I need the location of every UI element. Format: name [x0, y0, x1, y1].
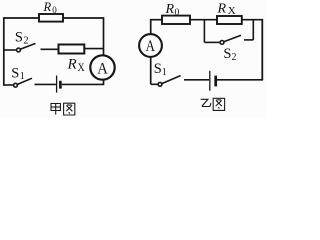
switch S1 (甲)	[4, 78, 32, 87]
wire: right vertical lower (甲)	[103, 80, 105, 85]
ammeter A (乙)	[139, 34, 162, 57]
wire: middle branch right segment (甲)	[84, 48, 103, 50]
caption 乙图	[201, 98, 225, 110]
label S2 (乙)	[223, 46, 236, 63]
wire: left vertical lower (乙)	[150, 57, 152, 84]
battery cell (乙)	[210, 71, 216, 91]
label R0 (甲)	[43, 0, 58, 15]
svg-text:R: R	[217, 2, 227, 17]
svg-text:A: A	[146, 38, 156, 55]
resistor R0 (乙)	[162, 16, 190, 24]
label S1 (甲)	[11, 65, 24, 82]
svg-text:S: S	[11, 65, 19, 81]
wire: left vertical (甲)	[3, 17, 5, 86]
svg-text:1: 1	[162, 67, 167, 78]
wire: bottom wire right segment (甲)	[62, 83, 104, 85]
svg-text:0: 0	[52, 5, 57, 15]
svg-text:S: S	[223, 46, 231, 62]
wire: bypass right segment (乙)	[244, 20, 253, 40]
svg-text:S: S	[154, 61, 162, 77]
resistor R0 (甲)	[39, 14, 63, 22]
svg-text:2: 2	[23, 35, 28, 46]
svg-text:A: A	[97, 60, 108, 77]
label S2 (甲)	[15, 29, 29, 46]
label RX (甲)	[67, 56, 86, 74]
resistor RX (甲)	[59, 45, 85, 54]
battery cell (甲)	[57, 76, 61, 93]
svg-text:0: 0	[175, 8, 180, 18]
wire: middle branch left segment (甲)	[41, 48, 59, 50]
svg-text:X: X	[78, 62, 86, 74]
wire: bottom wire middle segment (乙)	[184, 79, 209, 81]
label RX (乙)	[217, 2, 236, 17]
wire: top wire left segment (甲)	[4, 17, 39, 19]
wire: top wire middle segment (乙)	[190, 19, 217, 21]
label S1 (乙)	[154, 61, 167, 78]
wire: top wire right segment (乙)	[242, 19, 262, 21]
wire: bypass left vertical (乙)	[203, 20, 205, 43]
switch S2 (甲)	[4, 43, 36, 51]
wire: bottom wire right segment (乙)	[217, 79, 263, 81]
switch S1 (乙)	[151, 76, 181, 87]
svg-text:R: R	[165, 2, 175, 17]
wire: bottom wire middle segment (甲)	[35, 83, 56, 85]
svg-text:1: 1	[20, 71, 25, 82]
caption 甲图	[51, 103, 75, 115]
wire: right vertical upper (甲)	[103, 17, 105, 55]
label R0 (乙)	[165, 2, 180, 18]
svg-text:X: X	[228, 5, 236, 17]
svg-text:2: 2	[232, 52, 237, 63]
resistor RX (乙)	[217, 16, 242, 24]
svg-text:S: S	[15, 29, 23, 45]
svg-text:R: R	[43, 0, 52, 14]
svg-text:R: R	[67, 56, 77, 72]
wire: left vertical upper (乙)	[150, 19, 152, 34]
switch S2 (乙)	[204, 35, 241, 44]
ammeter A (甲)	[90, 55, 114, 79]
wire: top wire right segment (甲)	[63, 17, 104, 19]
wire: right vertical (乙)	[261, 19, 263, 81]
wire: top wire left segment (乙)	[151, 19, 162, 21]
